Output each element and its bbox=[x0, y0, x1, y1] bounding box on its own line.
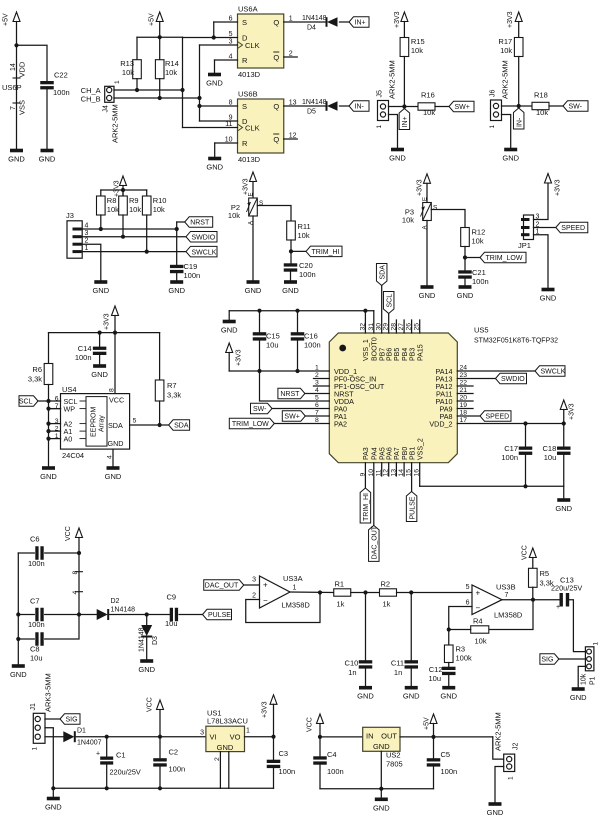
svg-text:GND: GND bbox=[570, 693, 587, 702]
svg-text:EEPROM: EEPROM bbox=[91, 406, 98, 437]
svg-text:LM358D: LM358D bbox=[494, 611, 523, 620]
svg-text:PULSE: PULSE bbox=[208, 612, 231, 619]
svg-text:1N4148: 1N4148 bbox=[302, 99, 327, 106]
svg-text:+3V3: +3V3 bbox=[262, 701, 269, 718]
svg-text:C18: C18 bbox=[542, 444, 556, 453]
svg-text:C12: C12 bbox=[429, 665, 443, 674]
svg-text:VDD_2: VDD_2 bbox=[429, 419, 452, 428]
svg-text:R5: R5 bbox=[540, 569, 550, 578]
svg-text:C20: C20 bbox=[299, 261, 313, 270]
svg-text:C4: C4 bbox=[327, 750, 337, 759]
svg-text:14: 14 bbox=[10, 63, 17, 71]
svg-text:GND: GND bbox=[168, 286, 185, 295]
svg-text:GND: GND bbox=[419, 291, 436, 300]
svg-text:220u/25V: 220u/25V bbox=[551, 584, 582, 593]
svg-text:C10: C10 bbox=[345, 659, 359, 668]
svg-text:PB5: PB5 bbox=[394, 348, 401, 361]
svg-text:OUT: OUT bbox=[381, 732, 397, 741]
svg-text:8: 8 bbox=[109, 388, 116, 392]
svg-text:100n: 100n bbox=[28, 620, 45, 629]
svg-text:4013D: 4013D bbox=[238, 70, 261, 79]
svg-text:GND: GND bbox=[108, 439, 124, 448]
svg-text:GND: GND bbox=[206, 163, 223, 172]
svg-text:+3V3: +3V3 bbox=[507, 11, 514, 28]
svg-text:100n: 100n bbox=[169, 765, 186, 774]
svg-text:4: 4 bbox=[107, 455, 114, 459]
svg-text:7805: 7805 bbox=[386, 760, 403, 769]
svg-text:US3B: US3B bbox=[496, 583, 516, 592]
svg-text:1n: 1n bbox=[394, 668, 402, 677]
svg-text:L78L33ACU: L78L33ACU bbox=[207, 717, 248, 726]
svg-text:J4: J4 bbox=[103, 105, 110, 113]
svg-text:GND: GND bbox=[92, 286, 109, 295]
svg-text:PA3: PA3 bbox=[363, 447, 370, 460]
svg-text:GND: GND bbox=[457, 291, 474, 300]
svg-text:C14: C14 bbox=[78, 344, 92, 353]
svg-text:1N4148: 1N4148 bbox=[302, 15, 327, 22]
svg-text:VI: VI bbox=[210, 733, 217, 742]
svg-text:PB0: PB0 bbox=[402, 447, 409, 460]
svg-text:100n: 100n bbox=[299, 270, 316, 279]
svg-text:TRIM_HI: TRIM_HI bbox=[312, 249, 340, 256]
svg-text:US3A: US3A bbox=[283, 574, 303, 583]
svg-text:US6B: US6B bbox=[238, 90, 258, 99]
svg-text:GND: GND bbox=[389, 154, 406, 163]
svg-text:US6P: US6P bbox=[2, 83, 22, 92]
svg-text:GND: GND bbox=[502, 154, 519, 163]
svg-text:100k: 100k bbox=[456, 654, 473, 663]
svg-text:PA5: PA5 bbox=[380, 447, 387, 460]
svg-text:CLK: CLK bbox=[245, 124, 260, 133]
svg-text:10u: 10u bbox=[165, 619, 178, 628]
svg-text:1N4148: 1N4148 bbox=[111, 607, 136, 614]
svg-text:STM32F051K8T6-TQFP32: STM32F051K8T6-TQFP32 bbox=[474, 338, 558, 345]
svg-text:1: 1 bbox=[508, 776, 515, 780]
svg-text:10u: 10u bbox=[266, 341, 279, 350]
svg-text:+: + bbox=[263, 581, 268, 590]
svg-text:TRIM_HI: TRIM_HI bbox=[363, 493, 370, 521]
svg-text:3,3k: 3,3k bbox=[167, 391, 181, 400]
svg-text:10k: 10k bbox=[228, 211, 240, 220]
svg-text:+3V3: +3V3 bbox=[394, 11, 401, 28]
svg-text:1: 1 bbox=[114, 80, 121, 84]
svg-text:SDA: SDA bbox=[108, 421, 123, 430]
svg-text:R12: R12 bbox=[472, 228, 486, 237]
svg-text:SWDIO: SWDIO bbox=[501, 376, 525, 383]
svg-text:US6A: US6A bbox=[238, 5, 258, 14]
svg-text:C1: C1 bbox=[116, 751, 126, 760]
svg-text:100n: 100n bbox=[472, 277, 489, 286]
svg-text:PA6: PA6 bbox=[387, 447, 394, 460]
svg-text:PA15: PA15 bbox=[418, 344, 425, 361]
svg-text:C6: C6 bbox=[30, 535, 40, 544]
svg-text:GND: GND bbox=[217, 743, 234, 752]
svg-text:E: E bbox=[249, 192, 255, 196]
svg-text:CH_B: CH_B bbox=[81, 95, 101, 104]
svg-text:GND: GND bbox=[373, 803, 390, 812]
svg-text:R6: R6 bbox=[32, 365, 42, 374]
svg-text:PA2: PA2 bbox=[334, 419, 347, 428]
svg-text:GND: GND bbox=[440, 692, 457, 701]
svg-text:+5V: +5V bbox=[3, 13, 10, 26]
svg-text:10u: 10u bbox=[544, 453, 557, 462]
svg-text:10k: 10k bbox=[472, 237, 484, 246]
svg-text:R9: R9 bbox=[129, 196, 139, 205]
svg-text:GND: GND bbox=[45, 803, 62, 812]
svg-text:Q: Q bbox=[273, 135, 279, 144]
svg-text:+: + bbox=[476, 589, 481, 598]
svg-text:VO: VO bbox=[230, 733, 241, 742]
svg-text:1: 1 bbox=[376, 125, 383, 129]
svg-text:3: 3 bbox=[200, 730, 204, 737]
svg-text:10k: 10k bbox=[153, 205, 165, 214]
svg-text:SWDIO: SWDIO bbox=[192, 234, 216, 241]
svg-text:C17: C17 bbox=[504, 444, 518, 453]
svg-text:+5V: +5V bbox=[424, 717, 431, 730]
svg-text:D3: D3 bbox=[152, 636, 159, 645]
svg-text:+3V3: +3V3 bbox=[104, 313, 111, 330]
svg-text:SIG: SIG bbox=[66, 717, 78, 724]
svg-text:PB4: PB4 bbox=[402, 348, 409, 361]
svg-text:1: 1 bbox=[32, 747, 39, 751]
svg-text:R1: R1 bbox=[335, 580, 345, 589]
svg-text:C19: C19 bbox=[184, 262, 198, 271]
svg-text:TRIM_LOW: TRIM_LOW bbox=[232, 421, 269, 428]
svg-text:VSS_1: VSS_1 bbox=[363, 339, 370, 361]
svg-text:10k: 10k bbox=[423, 108, 435, 117]
svg-text:C15: C15 bbox=[266, 332, 280, 341]
svg-text:GND: GND bbox=[91, 370, 108, 379]
svg-text:LM358D: LM358D bbox=[282, 601, 311, 610]
svg-text:R2: R2 bbox=[381, 580, 391, 589]
svg-text:GND: GND bbox=[555, 504, 572, 513]
svg-text:2: 2 bbox=[252, 593, 256, 600]
svg-text:US2: US2 bbox=[386, 751, 401, 760]
svg-text:R16: R16 bbox=[421, 91, 435, 100]
svg-text:R13: R13 bbox=[120, 59, 134, 68]
svg-text:1: 1 bbox=[489, 125, 496, 129]
svg-text:C9: C9 bbox=[167, 593, 177, 602]
svg-text:10k: 10k bbox=[581, 673, 588, 685]
svg-text:C7: C7 bbox=[30, 597, 40, 606]
svg-text:D5: D5 bbox=[307, 109, 316, 116]
svg-text:10k: 10k bbox=[165, 68, 177, 77]
svg-text:C2: C2 bbox=[169, 748, 179, 757]
svg-text:+3V3: +3V3 bbox=[555, 179, 562, 196]
svg-text:24C04: 24C04 bbox=[62, 451, 84, 460]
svg-text:R7: R7 bbox=[167, 381, 177, 390]
svg-text:5: 5 bbox=[466, 584, 470, 591]
svg-text:100n: 100n bbox=[53, 88, 70, 97]
svg-text:GND: GND bbox=[40, 472, 57, 481]
svg-text:4: 4 bbox=[72, 591, 79, 595]
svg-text:1: 1 bbox=[315, 365, 319, 372]
svg-text:100n: 100n bbox=[304, 341, 321, 350]
svg-text:SIG: SIG bbox=[541, 657, 553, 664]
svg-text:GND: GND bbox=[39, 155, 56, 164]
svg-text:220u/25V: 220u/25V bbox=[110, 768, 141, 777]
svg-text:10k: 10k bbox=[122, 68, 134, 77]
svg-text:4013D: 4013D bbox=[238, 155, 261, 164]
svg-text:GND: GND bbox=[282, 286, 299, 295]
svg-text:VCC: VCC bbox=[65, 526, 72, 541]
svg-text:R: R bbox=[242, 139, 248, 148]
svg-text:ARK2-5MM: ARK2-5MM bbox=[494, 712, 503, 751]
svg-text:GND: GND bbox=[206, 79, 223, 88]
svg-text:GND: GND bbox=[487, 808, 504, 817]
svg-text:J2: J2 bbox=[513, 743, 520, 751]
svg-text:GND: GND bbox=[221, 326, 238, 335]
svg-text:A0: A0 bbox=[64, 434, 73, 443]
svg-text:5: 5 bbox=[315, 395, 319, 402]
svg-text:IN-: IN- bbox=[355, 104, 365, 111]
svg-text:10k: 10k bbox=[411, 46, 423, 55]
svg-text:P1: P1 bbox=[590, 676, 597, 685]
svg-text:VDD: VDD bbox=[18, 61, 27, 77]
svg-text:VCC: VCC bbox=[109, 396, 124, 405]
svg-text:SWCLK: SWCLK bbox=[541, 369, 566, 376]
svg-text:VCC: VCC bbox=[147, 697, 154, 712]
svg-text:R15: R15 bbox=[411, 37, 425, 46]
svg-text:GND: GND bbox=[357, 692, 374, 701]
svg-text:SPEED: SPEED bbox=[486, 414, 510, 421]
svg-text:J3: J3 bbox=[66, 211, 74, 220]
svg-text:+3V3: +3V3 bbox=[236, 349, 243, 366]
svg-text:DAC_OUT: DAC_OUT bbox=[205, 583, 239, 590]
svg-text:D1: D1 bbox=[77, 728, 86, 735]
svg-text:D4: D4 bbox=[307, 25, 316, 32]
svg-text:IN+: IN+ bbox=[355, 20, 366, 27]
svg-text:PA7: PA7 bbox=[394, 447, 401, 460]
svg-text:C3: C3 bbox=[279, 749, 289, 758]
svg-text:10k: 10k bbox=[500, 46, 512, 55]
svg-text:GND: GND bbox=[245, 286, 262, 295]
svg-text:PULSE: PULSE bbox=[409, 496, 416, 519]
svg-text:+: + bbox=[96, 751, 100, 758]
svg-text:C22: C22 bbox=[54, 71, 68, 80]
svg-text:100n: 100n bbox=[75, 353, 92, 362]
svg-text:100n: 100n bbox=[184, 271, 201, 280]
svg-text:J1: J1 bbox=[30, 703, 37, 711]
svg-text:SW-: SW- bbox=[569, 104, 583, 111]
svg-text:+3V3: +3V3 bbox=[114, 180, 121, 197]
svg-text:6: 6 bbox=[466, 600, 470, 607]
svg-text:DAC_OUT: DAC_OUT bbox=[372, 525, 379, 559]
svg-text:Q: Q bbox=[273, 53, 279, 62]
svg-text:JP1: JP1 bbox=[518, 241, 531, 250]
svg-text:US4: US4 bbox=[62, 385, 77, 394]
svg-text:BOOT0: BOOT0 bbox=[372, 337, 379, 361]
svg-text:J6: J6 bbox=[490, 90, 497, 98]
svg-text:10u: 10u bbox=[428, 674, 441, 683]
svg-text:1k: 1k bbox=[383, 600, 391, 609]
svg-text:5: 5 bbox=[133, 418, 137, 425]
svg-text:SW+: SW+ bbox=[455, 104, 470, 111]
svg-text:WP: WP bbox=[64, 404, 76, 413]
svg-text:ARK2-5MM: ARK2-5MM bbox=[501, 60, 510, 99]
svg-text:ARK3-5MM: ARK3-5MM bbox=[44, 673, 53, 712]
svg-text:C5: C5 bbox=[441, 750, 451, 759]
svg-text:PB1: PB1 bbox=[409, 447, 416, 460]
svg-text:TRIM_LOW: TRIM_LOW bbox=[486, 255, 523, 262]
svg-text:C8: C8 bbox=[30, 645, 40, 654]
svg-text:10k: 10k bbox=[298, 231, 310, 240]
svg-text:PB6: PB6 bbox=[387, 348, 394, 361]
svg-text:C16: C16 bbox=[304, 332, 318, 341]
svg-text:100n: 100n bbox=[501, 453, 518, 462]
svg-text:ARK2-5MM: ARK2-5MM bbox=[111, 104, 120, 143]
svg-text:C11: C11 bbox=[391, 659, 404, 668]
svg-text:R8: R8 bbox=[107, 196, 117, 205]
svg-text:100n: 100n bbox=[279, 767, 296, 776]
svg-text:GND: GND bbox=[403, 692, 420, 701]
svg-text:10k: 10k bbox=[475, 637, 487, 646]
svg-text:1: 1 bbox=[246, 728, 250, 735]
svg-text:3: 3 bbox=[252, 577, 256, 584]
svg-text:SPEED: SPEED bbox=[561, 225, 585, 232]
svg-text:R3: R3 bbox=[456, 645, 466, 654]
svg-text:7: 7 bbox=[505, 592, 509, 599]
svg-text:VSS_2: VSS_2 bbox=[418, 438, 425, 460]
svg-text:NRST: NRST bbox=[190, 220, 210, 227]
svg-text:PB7: PB7 bbox=[380, 348, 387, 361]
svg-text:+3V3: +3V3 bbox=[569, 403, 576, 420]
svg-text:CLK: CLK bbox=[245, 41, 260, 50]
svg-text:IN-: IN- bbox=[516, 117, 523, 127]
svg-text:Array: Array bbox=[99, 415, 106, 432]
svg-text:PA4: PA4 bbox=[372, 447, 379, 460]
svg-text:SW-: SW- bbox=[253, 406, 267, 413]
svg-text:D2: D2 bbox=[111, 598, 120, 605]
svg-text:GND: GND bbox=[10, 670, 27, 679]
svg-text:Q: Q bbox=[273, 18, 279, 27]
svg-text:R18: R18 bbox=[534, 91, 548, 100]
svg-text:1N4007: 1N4007 bbox=[77, 740, 102, 747]
svg-text:−: − bbox=[263, 596, 268, 605]
svg-text:PB3: PB3 bbox=[409, 348, 416, 361]
svg-text:+: + bbox=[556, 604, 560, 611]
svg-text:10k: 10k bbox=[129, 205, 141, 214]
svg-text:3,3k: 3,3k bbox=[28, 375, 42, 384]
svg-text:GND: GND bbox=[373, 742, 390, 751]
svg-text:US5: US5 bbox=[474, 326, 489, 335]
svg-text:1k: 1k bbox=[337, 600, 345, 609]
svg-text:−: − bbox=[476, 604, 481, 613]
svg-text:R17: R17 bbox=[498, 37, 512, 46]
svg-text:GND: GND bbox=[105, 472, 122, 481]
svg-text:R14: R14 bbox=[165, 59, 179, 68]
svg-text:10k: 10k bbox=[402, 216, 414, 225]
svg-text:IN+: IN+ bbox=[402, 116, 409, 127]
svg-text:100n: 100n bbox=[441, 767, 458, 776]
svg-text:GND: GND bbox=[8, 155, 25, 164]
svg-text:2: 2 bbox=[214, 757, 221, 761]
svg-text:+5V: +5V bbox=[149, 13, 156, 26]
svg-text:E: E bbox=[423, 197, 429, 201]
svg-text:ARK2-5MM: ARK2-5MM bbox=[388, 60, 397, 99]
svg-text:NRST: NRST bbox=[280, 391, 300, 398]
svg-text:1N4148: 1N4148 bbox=[139, 627, 146, 652]
svg-text:1: 1 bbox=[592, 642, 599, 646]
svg-text:1n: 1n bbox=[348, 668, 356, 677]
svg-text:10k: 10k bbox=[536, 108, 548, 117]
svg-text:VCC: VCC bbox=[307, 717, 314, 732]
svg-text:R10: R10 bbox=[153, 196, 167, 205]
svg-text:SCL: SCL bbox=[386, 294, 393, 308]
svg-text:8: 8 bbox=[72, 571, 79, 575]
svg-text:100n: 100n bbox=[327, 767, 344, 776]
svg-text:7: 7 bbox=[10, 106, 17, 110]
svg-text:GND: GND bbox=[540, 294, 557, 303]
svg-text:C21: C21 bbox=[472, 268, 486, 277]
svg-text:S: S bbox=[433, 205, 438, 212]
svg-text:SDA: SDA bbox=[174, 423, 189, 430]
svg-text:SCL: SCL bbox=[19, 399, 33, 406]
svg-text:R4: R4 bbox=[473, 617, 483, 626]
svg-text:1: 1 bbox=[293, 585, 297, 592]
svg-text:10u: 10u bbox=[30, 654, 43, 663]
svg-text:R11: R11 bbox=[298, 222, 311, 231]
svg-text:S: S bbox=[242, 18, 247, 27]
svg-text:10k: 10k bbox=[107, 205, 119, 214]
svg-text:SWCLK: SWCLK bbox=[192, 249, 217, 256]
svg-text:VCC: VCC bbox=[522, 545, 529, 560]
svg-text:J5: J5 bbox=[377, 90, 384, 98]
svg-text:VSS: VSS bbox=[18, 100, 27, 115]
svg-text:Q: Q bbox=[273, 102, 279, 111]
svg-text:SDA: SDA bbox=[379, 265, 386, 280]
svg-text:+3V3: +3V3 bbox=[417, 179, 424, 196]
svg-text:SW+: SW+ bbox=[284, 414, 299, 421]
svg-text:IN: IN bbox=[366, 732, 374, 741]
svg-text:R: R bbox=[242, 56, 248, 65]
svg-text:GND: GND bbox=[138, 665, 155, 674]
svg-text:S: S bbox=[242, 102, 247, 111]
svg-text:100n: 100n bbox=[28, 559, 45, 568]
